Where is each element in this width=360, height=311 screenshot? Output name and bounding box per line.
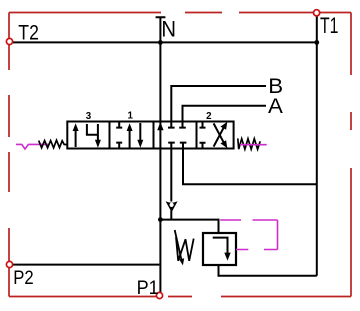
svg-text:2: 2 <box>206 111 212 122</box>
svg-text:P1: P1 <box>137 277 159 299</box>
svg-text:3: 3 <box>86 111 92 122</box>
svg-text:P2: P2 <box>13 267 33 288</box>
svg-text:A: A <box>268 94 283 118</box>
svg-text:N: N <box>161 16 176 41</box>
svg-text:T2: T2 <box>18 21 39 45</box>
svg-text:1: 1 <box>127 111 133 122</box>
svg-text:T1: T1 <box>320 14 338 38</box>
